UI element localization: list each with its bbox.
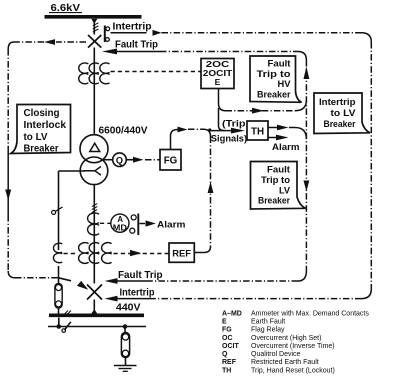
switch on lower line <box>62 329 66 333</box>
hatch above busbar <box>64 311 71 315</box>
svg-text:Qualitrol Device: Qualitrol Device <box>251 351 301 358</box>
svg-text:MD: MD <box>113 223 128 232</box>
relay REF box <box>169 243 194 262</box>
box Fault Trip to HV Breaker <box>250 56 302 102</box>
wire dashed CT to REF <box>114 253 170 255</box>
junction busbar flare <box>91 19 97 24</box>
node dots <box>57 324 62 329</box>
svg-text:Breaker: Breaker <box>258 196 290 207</box>
label Alarm TH <box>272 141 300 152</box>
breaker HV (X) <box>88 35 101 48</box>
svg-text:Intertrip: Intertrip <box>319 97 356 108</box>
label 6.6kV <box>51 2 81 14</box>
svg-text:Closing: Closing <box>24 108 60 119</box>
wire TH output alarm <box>268 137 276 139</box>
svg-text:Earth Fault: Earth Fault <box>251 319 285 326</box>
label (Trip Signals) <box>211 117 247 143</box>
svg-text:Breaker: Breaker <box>324 119 356 130</box>
svg-text:REF: REF <box>222 359 237 366</box>
svg-text:OC: OC <box>222 335 233 342</box>
wire CT secondary dashed to 2OC <box>111 71 202 73</box>
svg-text:to LV: to LV <box>24 132 48 143</box>
switch on branch <box>52 210 56 214</box>
label 6600/440V <box>99 126 148 137</box>
svg-text:Overcurrent (Inverse Time): Overcurrent (Inverse Time) <box>251 343 335 350</box>
relay FG box <box>160 150 181 171</box>
box Intertrip to LV Breaker <box>314 93 370 134</box>
svg-text:Q: Q <box>222 351 228 358</box>
wire trip bus vertical <box>305 60 307 271</box>
wire main HV drop <box>93 19 95 35</box>
wire dashed CT to meter <box>100 222 111 224</box>
svg-text:A–MD: A–MD <box>222 311 242 318</box>
wire fault trip LV horizontal <box>148 280 298 282</box>
svg-text:to LV: to LV <box>331 108 357 119</box>
meter A-MD <box>111 214 129 232</box>
svg-text:(Trip: (Trip <box>222 117 246 128</box>
svg-text:OCIT: OCIT <box>222 343 239 350</box>
label Intertrip LV <box>120 288 155 299</box>
svg-text:Restricted Earth Fault: Restricted Earth Fault <box>251 359 319 366</box>
box Closing Interlock to LV Breaker <box>11 105 71 154</box>
breaker LV (X) <box>87 285 102 300</box>
svg-text:Flag Relay: Flag Relay <box>251 327 285 334</box>
label Intertrip HV <box>113 22 152 33</box>
svg-text:FG: FG <box>164 156 178 167</box>
earthing fuse branch <box>124 327 126 334</box>
fuse on branch <box>55 284 62 309</box>
wire LV branch vertical <box>58 171 60 250</box>
svg-text:FG: FG <box>222 327 232 334</box>
svg-text:6600/440V: 6600/440V <box>99 126 148 137</box>
wire intertrip HV dash-dot to right <box>111 32 147 34</box>
wire alarm arrow A-MD <box>140 223 146 225</box>
wire TH output trip <box>268 127 277 129</box>
svg-text:Alarm: Alarm <box>157 218 186 229</box>
ground <box>114 365 137 367</box>
CT group REF (3 CTs) <box>79 243 112 264</box>
node trip signals junction <box>208 128 211 131</box>
busbar 6.6kV <box>45 15 142 19</box>
wire LV neutral branch horizontal <box>59 170 86 172</box>
busbar 440V <box>49 313 144 317</box>
svg-text:Overcurrent (High Set): Overcurrent (High Set) <box>251 335 321 342</box>
transformer T1 secondary (wye) <box>80 157 108 185</box>
svg-text:Interlock: Interlock <box>24 120 67 131</box>
svg-text:Trip, Hand Reset (Lockout): Trip, Hand Reset (Lockout) <box>251 367 335 374</box>
aux contacts HV breaker <box>104 26 106 43</box>
label Alarm A-MD <box>157 218 186 229</box>
device Q (Qualitrol) <box>102 159 113 161</box>
label 440V <box>116 303 141 314</box>
wire 2OC branch down to TH input <box>219 108 225 131</box>
CT group HV (3 CTs) <box>79 63 110 84</box>
wire HV breaker to transformer <box>93 48 95 136</box>
svg-text:Breaker: Breaker <box>24 144 59 155</box>
relay 2OC/2OCIT/E box <box>201 59 234 89</box>
transformer T1 primary (delta) <box>80 135 108 163</box>
withdrawable hatch HV <box>93 23 99 32</box>
wire closing interlock from HV breaker <box>56 41 86 43</box>
withdrawable hatch LV <box>92 204 97 213</box>
svg-text:Alarm: Alarm <box>272 141 300 152</box>
svg-text:Breaker: Breaker <box>257 89 291 100</box>
box Fault Trip to LV Breaker <box>251 162 306 210</box>
wire transformer to LV breaker <box>93 185 95 284</box>
wire intertrip right vertical <box>370 42 372 289</box>
wire REF riser <box>210 137 212 247</box>
svg-text:TH: TH <box>222 367 231 374</box>
svg-text:Ammeter with Max. Demand Conta: Ammeter with Max. Demand Contacts <box>251 311 369 318</box>
legend <box>222 311 369 375</box>
svg-text:REF: REF <box>172 248 191 259</box>
dashes between branch CT and REF group <box>64 253 77 255</box>
svg-text:Signals): Signals) <box>211 132 247 143</box>
wire 2OC output to HV trip bus <box>219 89 226 111</box>
label Fault Trip HV <box>115 40 158 51</box>
wire LV breaker to busbar <box>93 300 95 314</box>
svg-text:TH: TH <box>251 127 264 138</box>
wire FG output to trip signals <box>171 130 178 150</box>
contacts A-MD <box>131 215 136 220</box>
wire intertrip LV horizontal <box>152 298 362 300</box>
svg-text:Fault Trip: Fault Trip <box>118 270 163 281</box>
svg-text:Intertrip: Intertrip <box>113 22 152 33</box>
svg-text:Fault Trip: Fault Trip <box>115 40 158 51</box>
relay TH box <box>247 121 268 140</box>
svg-text:Q: Q <box>116 155 123 165</box>
CT A-MD <box>88 213 100 235</box>
svg-text:E: E <box>215 77 221 87</box>
svg-text:E: E <box>222 319 227 326</box>
lower distribution line <box>48 326 146 328</box>
svg-text:Intertrip: Intertrip <box>120 288 155 299</box>
CT on branch <box>53 243 62 262</box>
wire fault trip HV dash-dot <box>115 51 161 53</box>
svg-text:Fault: Fault <box>267 165 291 176</box>
svg-text:440V: 440V <box>116 303 141 314</box>
label Fault Trip LV <box>118 270 163 281</box>
